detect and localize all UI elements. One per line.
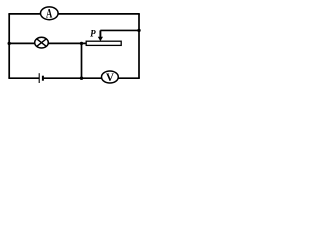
svg-text:P: P — [90, 29, 96, 39]
svg-text:V: V — [106, 72, 115, 84]
svg-text:A: A — [46, 7, 52, 21]
